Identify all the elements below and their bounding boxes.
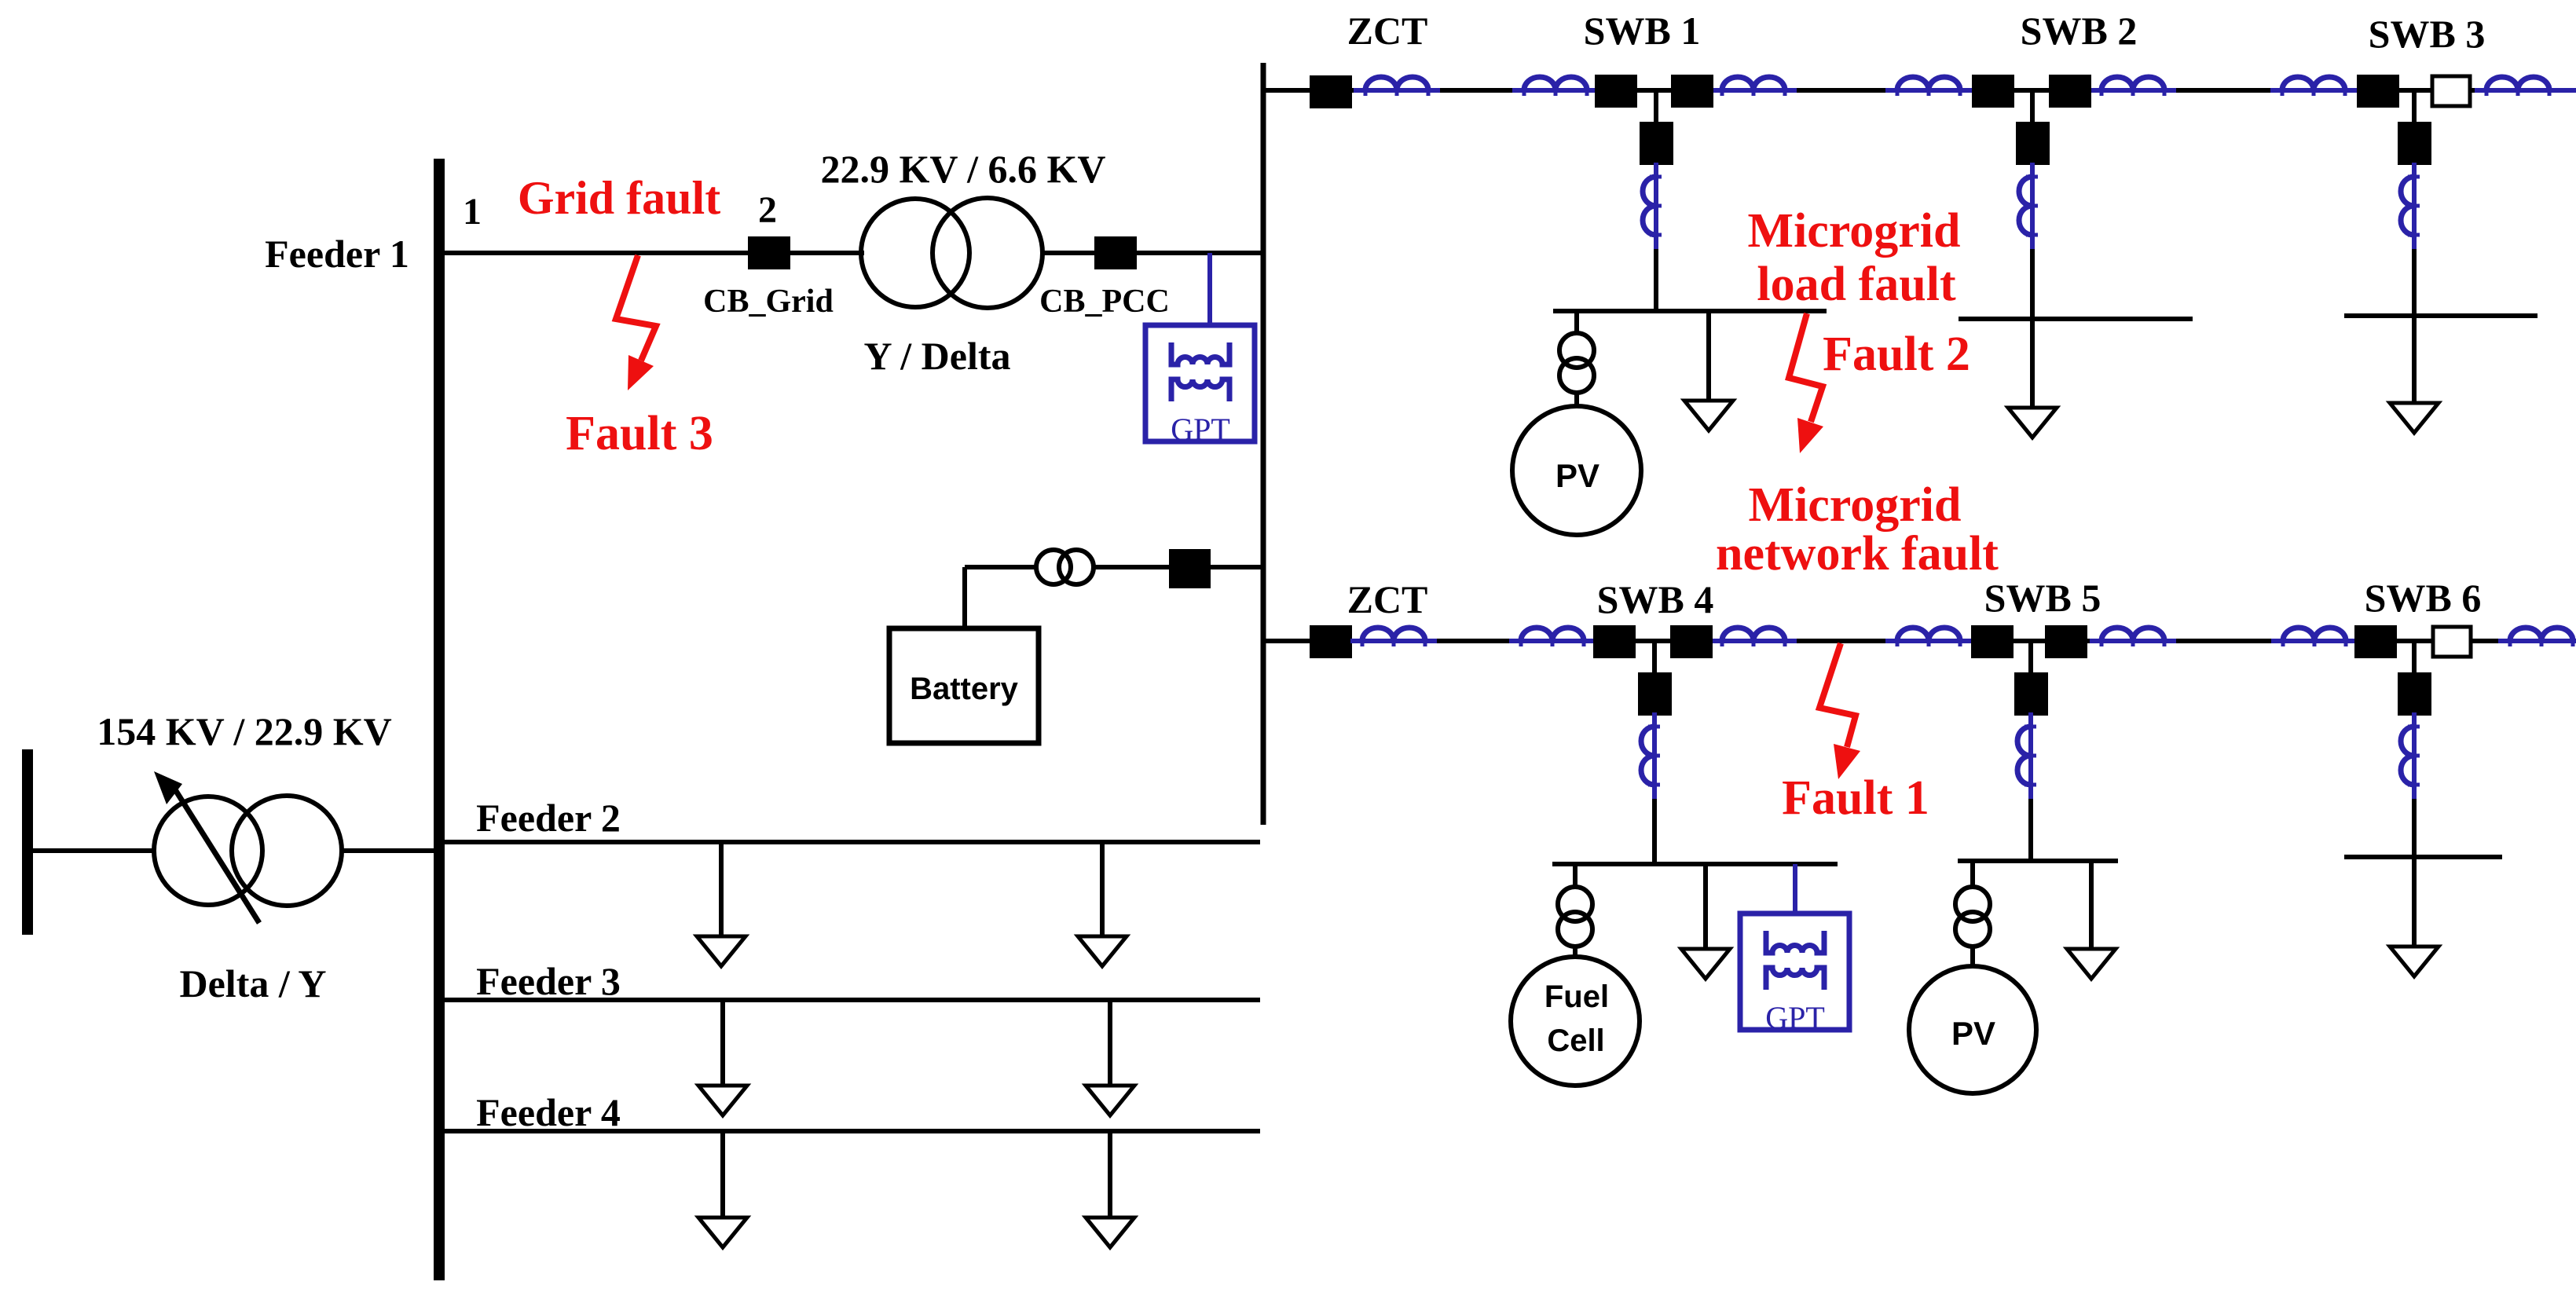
load arrow SWB3: [2390, 403, 2439, 433]
wire row1 blue tail: [2553, 88, 2576, 93]
wire Feeder 4: [440, 1129, 1260, 1133]
breaker SWB6 right open: [2433, 627, 2471, 657]
svg-text:PV: PV: [1951, 1015, 1995, 1052]
svg-text:GPT: GPT: [1171, 412, 1230, 447]
wire tap to GPT1: [1207, 253, 1212, 325]
grounding transformer GPT (SWB4): [1740, 914, 1849, 1030]
svg-text:ZCT: ZCT: [1347, 9, 1428, 53]
wire SWB1 feeder down: [1654, 249, 1658, 311]
line reactor row1 g: [2475, 77, 2561, 96]
wire Feeder1 bus to CB_Grid: [440, 251, 748, 255]
svg-text:Feeder 3: Feeder 3: [476, 959, 621, 1003]
line reactor row2 b: [1509, 628, 1596, 646]
generator PV (SWB5): [1909, 966, 2036, 1093]
SWB1 load bus: [1553, 309, 1827, 313]
wire SWB5 T-junction down: [2028, 641, 2033, 672]
breaker SWB2 right: [2049, 75, 2091, 108]
reactor SWB5 feeder: [2017, 712, 2036, 799]
breaker SWB2 left: [1972, 75, 2014, 108]
svg-text:Microgrid: Microgrid: [1749, 478, 1962, 532]
wire SWB2 T-junction down: [2030, 90, 2035, 122]
load arrow Feeder 3 load 2: [1086, 1086, 1134, 1115]
svg-text:load fault: load fault: [1757, 258, 1956, 311]
line reactor row1 e: [2090, 77, 2176, 96]
wire Feeder 3 load tap 1: [720, 1000, 725, 1086]
SWB5 load bus: [1958, 859, 2118, 863]
load arrow Feeder 2 load 2: [1078, 936, 1127, 966]
svg-text:SWB 3: SWB 3: [2369, 12, 2486, 56]
svg-text:Fuel: Fuel: [1545, 980, 1609, 1014]
microgrid feeder row 1 line: [1263, 88, 2576, 93]
breaker ZCT row2: [1310, 625, 1352, 658]
breaker ZCT row1: [1310, 75, 1352, 108]
wire SWB3 T-junction down: [2412, 90, 2417, 122]
svg-text:Feeder 2: Feeder 2: [476, 796, 621, 840]
svg-text:SWB 5: SWB 5: [1984, 576, 2101, 620]
wire Feeder 3 load tap 2: [1108, 1000, 1112, 1086]
breaker SWB3 left: [2357, 75, 2399, 108]
load arrow Feeder 4 load 2: [1086, 1218, 1134, 1247]
load arrow SWB4: [1681, 949, 1730, 979]
wire fuel cell transformer down: [1573, 946, 1577, 958]
wire CB_Grid to transformer: [790, 251, 864, 255]
line reactor row2 d: [1885, 628, 1972, 646]
fault arrow Fault 2: [1789, 313, 1823, 453]
wire SWB2 feeder down: [2030, 249, 2035, 408]
svg-text:SWB 6: SWB 6: [2365, 576, 2482, 620]
svg-text:SWB 2: SWB 2: [2021, 9, 2138, 53]
svg-text:Fault 2: Fault 2: [1823, 328, 1970, 381]
transformer 154/22.9 kV Delta/Y OLTC: [154, 796, 342, 906]
load arrow Feeder 2 load 1: [697, 936, 746, 966]
transformer SWB1 PV: [1559, 333, 1594, 393]
reactor SWB6 feeder: [2401, 712, 2420, 799]
generator PV (SWB1): [1512, 406, 1641, 535]
breaker SWB3 right open: [2432, 76, 2470, 106]
circuit breaker CB_Grid: [748, 236, 790, 269]
breaker SWB4 right: [1670, 625, 1713, 658]
SWB4 load bus: [1552, 862, 1838, 866]
line reactor row1 c: [1710, 77, 1797, 96]
wire SWB6 feeder down: [2412, 799, 2417, 947]
wire transformer to CB_PCC: [1042, 251, 1094, 255]
utility grid bus bar 154kV: [22, 749, 33, 935]
grounding transformer GPT (PCC): [1145, 325, 1255, 441]
svg-text:Microgrid: Microgrid: [1748, 204, 1961, 258]
breaker SWB6 left: [2354, 625, 2397, 658]
wire battery riser: [962, 567, 967, 628]
wire transformer to battery breaker: [1094, 565, 1169, 569]
line reactor row1 a: [1354, 77, 1440, 96]
svg-text:SWB 1: SWB 1: [1584, 9, 1701, 53]
wire SWB5 PV tap: [1970, 861, 1975, 888]
svg-text:network fault: network fault: [1716, 527, 1999, 580]
wire SWB4 fuel cell tap: [1573, 864, 1577, 888]
breaker SWB5 feeder: [2014, 672, 2048, 716]
reactor SWB1 feeder: [1643, 163, 1662, 249]
breaker SWB5 left: [1971, 625, 2014, 658]
svg-text:2: 2: [758, 189, 777, 231]
transformer 22.9/6.6 kV Y/Delta: [861, 198, 1042, 308]
breaker SWB1 left: [1595, 75, 1637, 108]
generator Fuel Cell: [1511, 957, 1640, 1086]
wire SWB4 GPT tap: [1793, 864, 1797, 914]
svg-text:PV: PV: [1555, 457, 1599, 494]
breaker SWB5 right: [2045, 625, 2087, 658]
svg-text:Fault 3: Fault 3: [566, 407, 713, 460]
circuit breaker CB_PCC: [1094, 236, 1137, 269]
wire row2 blue tail: [2553, 639, 2576, 643]
SWB3 load bus: [2344, 313, 2538, 318]
wire SWB4 load tap: [1703, 864, 1708, 949]
svg-text:Feeder 1: Feeder 1: [265, 232, 409, 276]
battery box: [889, 628, 1039, 743]
svg-text:CB_PCC: CB_PCC: [1039, 284, 1170, 320]
breaker SWB3 feeder: [2398, 122, 2431, 165]
wire Feeder 2 load tap 1: [719, 842, 724, 936]
wire Feeder 4 load tap 2: [1108, 1131, 1112, 1218]
SWB6 load bus: [2344, 855, 2502, 859]
OLTC tap-changer arrow: [172, 785, 259, 923]
microgrid feeder row 2 line: [1263, 639, 2576, 643]
svg-text:Cell: Cell: [1547, 1024, 1604, 1058]
svg-text:154 KV / 22.9 KV: 154 KV / 22.9 KV: [97, 709, 392, 753]
svg-text:GPT: GPT: [1765, 1000, 1825, 1035]
wire Feeder 2 load tap 2: [1100, 842, 1105, 936]
wire SWB4 T-junction down: [1652, 641, 1657, 672]
transformer SWB4 fuel cell: [1558, 887, 1592, 947]
wire SWB3 feeder down: [2412, 249, 2417, 403]
reactor SWB2 feeder: [2019, 163, 2038, 249]
wire OLTC to main bus: [343, 848, 434, 853]
line reactor row2 c: [1710, 628, 1797, 646]
line reactor row2 g: [2498, 628, 2576, 646]
svg-text:Grid fault: Grid fault: [518, 172, 720, 224]
line reactor row1 d: [1885, 77, 1972, 96]
wire PV transformer to PV: [1574, 392, 1579, 406]
wire SWB1 PV tap: [1574, 311, 1579, 335]
svg-text:Battery: Battery: [910, 672, 1019, 706]
svg-text:ZCT: ZCT: [1347, 577, 1428, 621]
fault arrow Fault 3: [616, 255, 656, 390]
transformer SWB5 PV: [1955, 887, 1990, 947]
line reactor row1 b: [1512, 77, 1599, 96]
wire SWB5 load tap: [2089, 861, 2094, 949]
load arrow SWB1: [1684, 401, 1733, 430]
wire 154kV bus to OLTC transformer: [33, 848, 154, 853]
svg-text:Delta / Y: Delta / Y: [180, 961, 327, 1005]
fault arrow Fault 1: [1819, 643, 1860, 779]
reactor SWB3 feeder: [2401, 163, 2420, 249]
wire PV transformer down SWB5: [1970, 946, 1975, 966]
wire SWB6 T-junction down: [2412, 641, 2417, 672]
wire Feeder 2: [440, 840, 1260, 844]
line reactor row1 f: [2270, 77, 2357, 96]
breaker SWB4 feeder: [1638, 672, 1672, 716]
PCC vertical bus: [1261, 63, 1266, 825]
wire battery breaker to PCC bus: [1211, 565, 1263, 569]
wire SWB5 feeder down: [2028, 799, 2033, 861]
line reactor row2 a: [1350, 628, 1437, 646]
svg-text:Y / Delta: Y / Delta: [864, 334, 1011, 378]
wire SWB1 T-junction down: [1654, 90, 1658, 122]
battery interface transformer: [1036, 550, 1094, 584]
load arrow SWB2: [2008, 408, 2057, 438]
breaker SWB1 feeder: [1640, 122, 1673, 165]
wire Feeder 3: [440, 998, 1260, 1002]
breaker SWB2 feeder: [2016, 122, 2050, 165]
reactor SWB4 feeder: [1641, 712, 1660, 799]
load arrow Feeder 4 load 1: [698, 1218, 747, 1247]
SWB2 load bus: [1959, 317, 2193, 321]
breaker SWB1 right: [1671, 75, 1713, 108]
svg-text:CB_Grid: CB_Grid: [703, 284, 834, 320]
main distribution bus (vertical thick): [434, 159, 445, 1280]
svg-text:Fault 1: Fault 1: [1782, 771, 1929, 825]
svg-text:22.9 KV / 6.6 KV: 22.9 KV / 6.6 KV: [821, 147, 1106, 191]
wire battery to transformer: [965, 565, 1036, 569]
load arrow SWB6: [2390, 947, 2439, 976]
line reactor row2 e: [2090, 628, 2176, 646]
svg-text:Feeder 4: Feeder 4: [476, 1090, 621, 1134]
breaker SWB6 feeder: [2398, 672, 2431, 716]
wire CB_PCC to PCC bus: [1137, 251, 1263, 255]
circuit breaker battery: [1169, 549, 1211, 588]
svg-text:1: 1: [463, 191, 482, 233]
load arrow Feeder 3 load 1: [698, 1086, 747, 1115]
wire SWB4 feeder down: [1652, 799, 1657, 864]
svg-text:SWB 4: SWB 4: [1597, 577, 1714, 621]
line reactor row2 f: [2271, 628, 2358, 646]
load arrow SWB5: [2067, 949, 2116, 979]
wire Feeder 4 load tap 1: [720, 1131, 725, 1218]
breaker SWB4 left: [1593, 625, 1636, 658]
wire SWB1 load tap: [1706, 311, 1711, 401]
